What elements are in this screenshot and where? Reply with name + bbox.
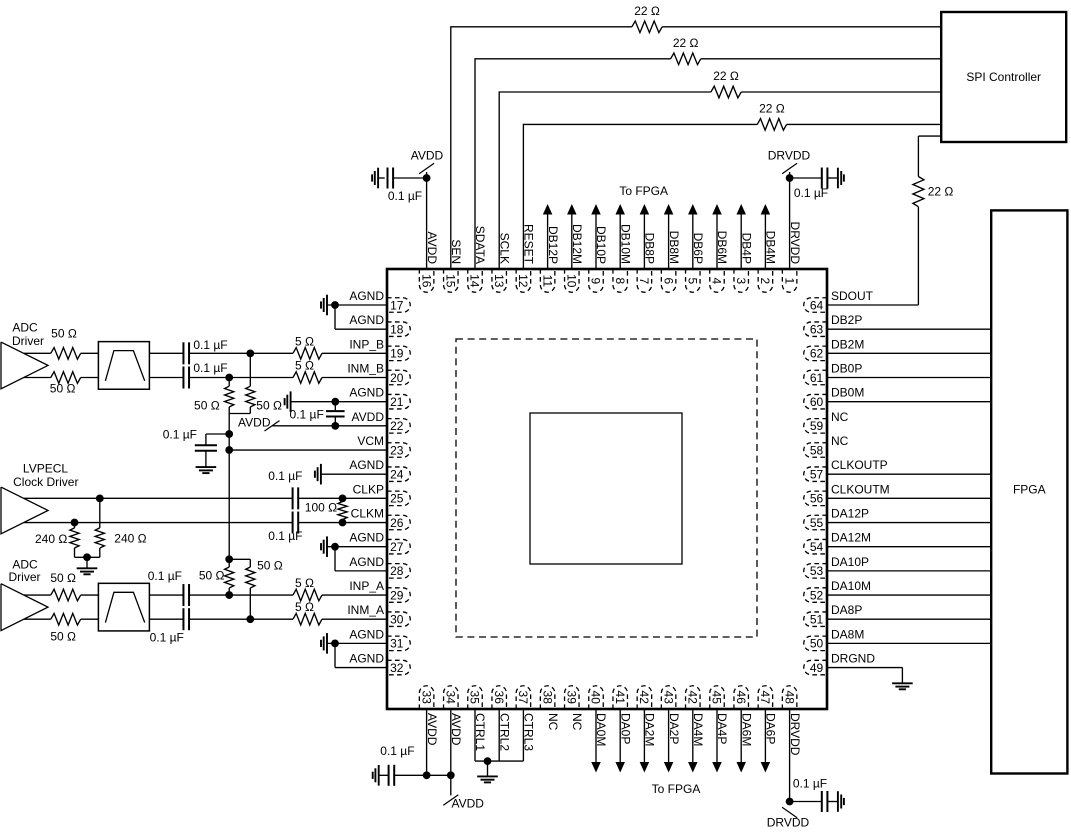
svg-text:24: 24: [390, 467, 404, 481]
svg-text:0.1 µF: 0.1 µF: [150, 631, 184, 645]
svg-text:55: 55: [810, 516, 824, 530]
svg-text:3: 3: [734, 277, 748, 284]
svg-text:INM_B: INM_B: [347, 362, 384, 376]
svg-text:33: 33: [419, 691, 433, 705]
svg-text:10: 10: [565, 274, 579, 288]
svg-text:49: 49: [810, 661, 824, 675]
svg-text:64: 64: [810, 298, 824, 312]
svg-text:AGND: AGND: [349, 531, 384, 545]
svg-text:57: 57: [810, 467, 824, 481]
svg-text:39: 39: [565, 691, 579, 705]
svg-text:47: 47: [758, 691, 772, 705]
svg-text:6: 6: [661, 277, 675, 284]
svg-text:31: 31: [390, 637, 404, 651]
svg-text:240 Ω: 240 Ω: [35, 532, 67, 546]
svg-text:38: 38: [540, 691, 554, 705]
svg-text:50 Ω: 50 Ω: [50, 630, 76, 644]
svg-text:14: 14: [468, 274, 482, 288]
svg-text:35: 35: [468, 691, 482, 705]
svg-text:54: 54: [810, 540, 824, 554]
svg-text:50 Ω: 50 Ω: [50, 571, 76, 585]
svg-text:NC: NC: [546, 713, 560, 731]
svg-text:50 Ω: 50 Ω: [51, 327, 77, 341]
svg-text:50 Ω: 50 Ω: [199, 568, 225, 582]
svg-text:63: 63: [810, 322, 824, 336]
svg-text:59: 59: [810, 419, 824, 433]
svg-text:AGND: AGND: [349, 458, 384, 472]
svg-text:0.1 µF: 0.1 µF: [794, 186, 828, 200]
svg-text:Clock Driver: Clock Driver: [13, 475, 78, 489]
svg-text:5 Ω: 5 Ω: [295, 334, 314, 348]
svg-text:ADC: ADC: [12, 321, 38, 335]
svg-text:9: 9: [589, 277, 603, 284]
svg-text:16: 16: [419, 274, 433, 288]
svg-text:50 Ω: 50 Ω: [256, 399, 282, 413]
svg-text:4: 4: [710, 277, 724, 284]
svg-text:0.1 µF: 0.1 µF: [793, 777, 827, 791]
svg-text:62: 62: [810, 347, 824, 361]
svg-text:17: 17: [390, 298, 404, 312]
svg-text:58: 58: [810, 443, 824, 457]
svg-text:51: 51: [810, 613, 824, 627]
svg-text:DRVDD: DRVDD: [768, 149, 811, 163]
svg-text:22 Ω: 22 Ω: [928, 185, 954, 199]
svg-text:Driver: Driver: [9, 570, 41, 584]
svg-text:100 Ω: 100 Ω: [305, 501, 337, 515]
svg-text:13: 13: [492, 274, 506, 288]
svg-text:DB0P: DB0P: [831, 362, 862, 376]
svg-text:40: 40: [589, 691, 603, 705]
svg-text:NC: NC: [831, 410, 849, 424]
svg-text:DB0M: DB0M: [831, 386, 864, 400]
svg-text:20: 20: [390, 371, 404, 385]
svg-text:22 Ω: 22 Ω: [673, 36, 699, 50]
svg-text:5 Ω: 5 Ω: [295, 359, 314, 373]
svg-text:50: 50: [810, 637, 824, 651]
svg-text:DA10P: DA10P: [831, 555, 869, 569]
svg-text:AVDD: AVDD: [452, 796, 485, 810]
svg-text:53: 53: [810, 564, 824, 578]
svg-text:50 Ω: 50 Ω: [50, 382, 76, 396]
svg-text:46: 46: [734, 691, 748, 705]
svg-text:Driver: Driver: [12, 334, 44, 348]
svg-text:56: 56: [810, 492, 824, 506]
svg-text:8: 8: [613, 277, 627, 284]
svg-text:AGND: AGND: [349, 555, 384, 569]
svg-text:0.1 µF: 0.1 µF: [163, 428, 197, 442]
svg-text:240 Ω: 240 Ω: [114, 531, 146, 545]
svg-text:To FPGA: To FPGA: [652, 782, 701, 796]
svg-text:DA8P: DA8P: [831, 603, 862, 617]
svg-text:2: 2: [758, 277, 772, 284]
svg-text:61: 61: [810, 371, 824, 385]
svg-text:50 Ω: 50 Ω: [257, 558, 283, 572]
svg-text:INM_A: INM_A: [347, 603, 384, 617]
svg-text:LVPECL: LVPECL: [23, 462, 68, 476]
svg-text:INP_A: INP_A: [349, 579, 384, 593]
svg-text:25: 25: [390, 492, 404, 506]
svg-text:27: 27: [390, 540, 404, 554]
svg-text:23: 23: [390, 443, 404, 457]
svg-text:26: 26: [390, 516, 404, 530]
svg-text:DA10M: DA10M: [831, 579, 871, 593]
svg-text:60: 60: [810, 395, 824, 409]
svg-text:28: 28: [390, 564, 404, 578]
svg-text:0.1 µF: 0.1 µF: [193, 338, 227, 352]
svg-text:42: 42: [686, 691, 700, 705]
svg-text:0.1 µF: 0.1 µF: [193, 361, 227, 375]
svg-text:NC: NC: [831, 434, 849, 448]
svg-text:0.1 µF: 0.1 µF: [388, 189, 422, 203]
svg-text:DA12M: DA12M: [831, 531, 871, 545]
svg-text:AGND: AGND: [349, 386, 384, 400]
svg-text:DRGND: DRGND: [831, 652, 875, 666]
svg-text:CLKOUTM: CLKOUTM: [831, 482, 890, 496]
svg-text:CLKM: CLKM: [351, 507, 384, 521]
svg-text:22 Ω: 22 Ω: [634, 4, 660, 18]
svg-text:48: 48: [782, 691, 796, 705]
svg-text:5 Ω: 5 Ω: [295, 600, 314, 614]
svg-text:7: 7: [637, 277, 651, 284]
svg-text:43: 43: [661, 691, 675, 705]
svg-text:42: 42: [637, 691, 651, 705]
svg-text:FPGA: FPGA: [1013, 483, 1046, 497]
svg-text:AGND: AGND: [349, 627, 384, 641]
svg-text:0.1 µF: 0.1 µF: [148, 569, 182, 583]
svg-text:AVDD: AVDD: [352, 410, 385, 424]
svg-text:DA8M: DA8M: [831, 627, 864, 641]
svg-text:AVDD: AVDD: [411, 149, 444, 163]
svg-text:1: 1: [782, 277, 796, 284]
svg-text:SPI Controller: SPI Controller: [966, 70, 1041, 84]
svg-text:19: 19: [390, 347, 404, 361]
svg-text:36: 36: [492, 691, 506, 705]
svg-text:32: 32: [390, 661, 404, 675]
svg-text:29: 29: [390, 588, 404, 602]
svg-text:VCM: VCM: [357, 434, 384, 448]
svg-text:AVDD: AVDD: [238, 415, 271, 429]
svg-text:11: 11: [540, 275, 554, 288]
svg-text:12: 12: [516, 274, 530, 288]
svg-text:0.1 µF: 0.1 µF: [290, 408, 324, 422]
svg-text:INP_B: INP_B: [349, 337, 384, 351]
svg-text:DB2M: DB2M: [831, 337, 864, 351]
svg-text:22 Ω: 22 Ω: [759, 101, 785, 115]
svg-text:DB2P: DB2P: [831, 313, 862, 327]
svg-text:45: 45: [710, 691, 724, 705]
svg-text:30: 30: [390, 613, 404, 627]
svg-text:5 Ω: 5 Ω: [295, 576, 314, 590]
svg-text:22 Ω: 22 Ω: [713, 69, 739, 83]
svg-text:AGND: AGND: [349, 289, 384, 303]
svg-text:DA12P: DA12P: [831, 507, 869, 521]
svg-text:To FPGA: To FPGA: [619, 184, 668, 198]
svg-text:CLKOUTP: CLKOUTP: [831, 458, 888, 472]
svg-text:0.1 µF: 0.1 µF: [268, 529, 302, 543]
svg-text:15: 15: [444, 274, 458, 288]
svg-text:41: 41: [613, 691, 627, 705]
svg-text:34: 34: [444, 691, 458, 705]
svg-text:AGND: AGND: [349, 652, 384, 666]
svg-text:50 Ω: 50 Ω: [194, 399, 220, 413]
svg-text:SDOUT: SDOUT: [831, 289, 874, 303]
svg-text:CLKP: CLKP: [353, 482, 384, 496]
svg-text:AGND: AGND: [349, 313, 384, 327]
svg-text:37: 37: [516, 691, 530, 705]
svg-text:21: 21: [390, 395, 404, 409]
svg-text:5: 5: [686, 277, 700, 284]
svg-text:52: 52: [810, 588, 824, 602]
svg-text:0.1 µF: 0.1 µF: [380, 744, 414, 758]
svg-text:DRVDD: DRVDD: [767, 816, 810, 830]
svg-text:18: 18: [390, 322, 404, 336]
svg-text:0.1 µF: 0.1 µF: [268, 469, 302, 483]
svg-text:NC: NC: [570, 713, 584, 731]
svg-text:22: 22: [390, 419, 404, 433]
